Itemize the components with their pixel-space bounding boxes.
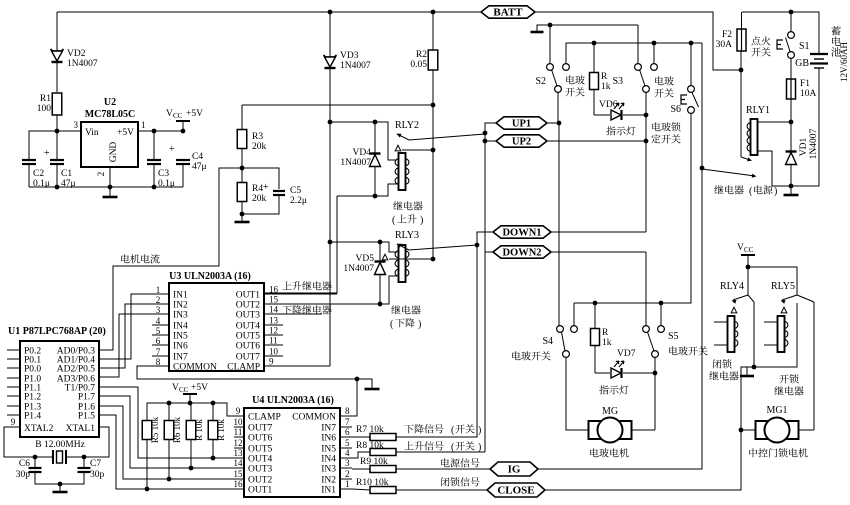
svg-text:UP1: UP1: [512, 119, 531, 130]
wire VD4 anode down: [374, 166, 376, 196]
svg-text:R8 10k: R8 10k: [356, 441, 384, 451]
svg-text:RLY1: RLY1: [746, 105, 770, 116]
node junction S1 top: [789, 10, 794, 15]
svg-text:+5V: +5V: [186, 109, 203, 119]
wire ground stub: [357, 379, 372, 388]
wire Vcc to RLY4 lever: [747, 267, 749, 295]
svg-text:R3: R3: [252, 132, 263, 142]
svg-text:UP2: UP2: [512, 137, 531, 148]
svg-text:3: 3: [156, 305, 161, 315]
svg-text:9: 9: [269, 357, 274, 367]
wire IG to RLY1 contact feed: [538, 43, 702, 469]
node junction R lower top: [593, 301, 598, 306]
svg-text:VD2: VD2: [67, 49, 86, 59]
node junction S6 top: [689, 41, 694, 46]
label 继电器 (上升) under RLY2: [393, 201, 422, 210]
svg-text:+: +: [263, 182, 269, 193]
node junction Vcc lock relays: [746, 265, 751, 270]
svg-text:RLY2: RLY2: [395, 120, 419, 131]
wire RLY2 stationary contact to R2 line: [402, 149, 433, 151]
pin 8 stub of U4 right: [340, 415, 352, 417]
resistor R10 10k: [370, 487, 396, 494]
resistor R7 10k: [370, 434, 396, 441]
svg-text:1k: 1k: [602, 338, 612, 348]
resistor R 1k lower: [591, 329, 600, 346]
wire ground stub lock: [746, 367, 748, 375]
wire R2 bottom to rail: [432, 70, 434, 105]
node junction ground rail at U4 COMMON: [355, 377, 360, 382]
wire ground rail under U2: [29, 186, 183, 188]
crystal B: [52, 450, 54, 464]
svg-text:0.05: 0.05: [410, 60, 427, 70]
wire U2 GND pin 2 down: [109, 167, 111, 196]
svg-text:CLAMP: CLAMP: [227, 363, 260, 373]
svg-text:47μ: 47μ: [192, 162, 207, 172]
svg-text:2.2μ: 2.2μ: [290, 196, 307, 206]
svg-text:OUT7: OUT7: [248, 424, 273, 434]
wire MG right: [632, 429, 655, 431]
wire S3 left contact drop: [637, 25, 639, 64]
diode VD3: [324, 55, 337, 57]
node junction R top b: [211, 401, 216, 406]
svg-text:R 10k: R 10k: [194, 419, 204, 441]
svg-text:5: 5: [345, 438, 350, 448]
wire P1.6 to U4 pin15 line: [99, 406, 244, 479]
svg-text:AD2/P0.5: AD2/P0.5: [57, 365, 96, 375]
pin 11 stub of U4 left: [234, 436, 244, 438]
pin 2 stub of U3: [152, 303, 169, 305]
svg-text:CLOSE: CLOSE: [497, 485, 534, 497]
ic U4 ULN2003A box: [244, 408, 340, 497]
motor MG1: [756, 421, 768, 439]
pin stub left P0.0: [7, 367, 20, 369]
wire VD3 branch: [329, 12, 331, 57]
wire RLY2 lever to UP net vertical: [484, 135, 486, 452]
svg-text:R: R: [601, 72, 608, 82]
tag DOWN2: [493, 246, 551, 258]
wire R1 to Vin node: [56, 115, 58, 160]
svg-text:2: 2: [345, 469, 350, 479]
svg-text:IN4: IN4: [321, 455, 336, 465]
svg-text:10: 10: [269, 347, 279, 357]
svg-text:COMMON: COMMON: [173, 363, 217, 373]
svg-text:IN1: IN1: [321, 486, 336, 496]
node junction UP2 tap: [483, 139, 488, 144]
capacitor C1 electrolytic: [50, 159, 64, 161]
svg-text:IN2: IN2: [173, 301, 188, 311]
svg-text:RLY5: RLY5: [771, 281, 795, 292]
wire U4 IN4 jog to R8 line: [352, 452, 370, 458]
resistor R4: [237, 183, 247, 202]
relay coil RLY1: [751, 119, 758, 155]
node junction stationary-R2: [431, 148, 436, 153]
led VD6 indicator: [594, 114, 610, 116]
resistor R1: [52, 93, 62, 115]
svg-text:S1: S1: [799, 41, 810, 52]
led VD7 indicator: [595, 372, 610, 374]
svg-text:S4: S4: [542, 336, 553, 347]
node junction VD5 cathode: [378, 240, 383, 245]
wire CLOSE to MG1 left: [545, 430, 741, 490]
pin 6 stub of U3: [152, 344, 169, 346]
wire grounded rail for S2 S3: [537, 25, 638, 31]
label 电玻开关 at S2: [566, 75, 585, 84]
pin stub left P1.3: [7, 405, 20, 407]
relay RLY1 contact lever: [702, 169, 755, 176]
wire motor current sense to MCU AD0/P0.3: [99, 168, 242, 350]
svg-text:R2: R2: [416, 50, 427, 60]
svg-text:C6: C6: [19, 459, 30, 469]
relay RLY4 link: [748, 295, 754, 302]
wire S4 right contact drop: [573, 303, 575, 326]
tag DOWN1: [493, 226, 551, 238]
op-amp U2 MC78L05C regulator box: [81, 122, 138, 167]
svg-text:4: 4: [156, 316, 161, 326]
label 电玻电机: [590, 448, 628, 457]
pin 12 stub of U3 right: [264, 334, 283, 336]
node junction R top a: [188, 401, 193, 406]
svg-text:OUT5: OUT5: [248, 445, 273, 455]
label 闭锁继电器: [713, 359, 732, 368]
diode VD2: [51, 49, 64, 51]
svg-text:MC78L05C: MC78L05C: [85, 109, 136, 120]
svg-text:6: 6: [156, 336, 161, 346]
svg-text:GB: GB: [795, 58, 809, 69]
wire RLY4 coil taps: [714, 321, 727, 323]
node junction R6 top: [167, 401, 172, 406]
node junction VD3 top: [328, 10, 333, 15]
svg-text:+5V: +5V: [117, 128, 134, 138]
svg-text:C1: C1: [61, 169, 72, 179]
svg-text:XTAL1: XTAL1: [66, 424, 96, 434]
svg-text:15: 15: [234, 469, 244, 479]
wire C6 stubs: [34, 457, 36, 468]
svg-text:VD1: VD1: [799, 138, 809, 157]
node junction VD5 anode: [378, 302, 383, 307]
node junction motor-current divider: [240, 166, 245, 171]
wire RLY5 coil taps: [764, 321, 777, 323]
svg-text:1: 1: [345, 479, 350, 489]
diode VD4 flyback: [374, 122, 376, 154]
label 指示灯 VD7: [599, 385, 628, 394]
node junction crystal ground: [58, 482, 63, 487]
svg-text:OUT5: OUT5: [236, 332, 261, 342]
wire C2 bottom: [28, 164, 30, 187]
svg-text:B 12.00MHz: B 12.00MHz: [35, 440, 85, 450]
wire F1 to RLY1 coil top: [790, 99, 792, 122]
relay RLY3 contact lever: [397, 244, 477, 250]
svg-text:1N4007: 1N4007: [343, 264, 374, 274]
wire T1/P0.7 to U4 pin13 line: [99, 387, 244, 458]
svg-text:R5 10k: R5 10k: [150, 416, 160, 443]
wire R10 to CLOSE tag: [396, 489, 487, 491]
relay coil RLY3: [399, 245, 406, 282]
node junction C3 bottom: [152, 185, 157, 190]
pin 11 stub of U3 right: [264, 344, 283, 346]
ic U3 ULN2003A box: [169, 283, 264, 371]
wire RLY4 output to RLY5 coil side: [754, 303, 797, 367]
svg-text:S2: S2: [535, 76, 546, 87]
svg-text:F1: F1: [800, 79, 810, 89]
wire DOWN2 to S5 left contact: [645, 252, 647, 326]
svg-text:IN7: IN7: [321, 424, 336, 434]
svg-text:): ): [418, 319, 421, 330]
ground symbol near U4: [365, 388, 380, 391]
svg-text:3: 3: [74, 120, 79, 130]
relay coil RLY4: [728, 316, 735, 352]
wire R4 bottom: [241, 201, 243, 214]
resistor R 1k top switch area: [590, 73, 599, 90]
pin stub left P1.1: [7, 386, 20, 388]
wire DOWN1 jog from R7 sense vertical: [477, 232, 493, 245]
tag IG: [490, 462, 538, 476]
pin 2 stub of U4 right: [340, 478, 352, 480]
capacitor C4 electrolytic: [176, 159, 190, 161]
wire C5 bottom to ground: [242, 195, 279, 214]
wire XTAL2 to crystal: [4, 427, 35, 457]
svg-text:S5: S5: [668, 331, 679, 342]
pin 5 stub of U3: [152, 334, 169, 336]
wire +5V rail of resistor bank: [147, 403, 244, 421]
wire F2 bottom to RLY1 armature: [740, 51, 742, 157]
wire R9 to IG tag: [396, 468, 490, 470]
ground symbol under R4: [235, 221, 250, 224]
label 电玻开关 at S3: [655, 76, 674, 85]
svg-text:): ): [774, 186, 777, 197]
pin 10 stub of U3 right: [264, 355, 283, 357]
pin 9 stub XTAL2: [7, 426, 20, 428]
fuse F2 30A: [737, 29, 746, 51]
wire RLY3 top feed to coil: [330, 242, 397, 252]
wire U3 IN1 from AD1/P0.4: [99, 294, 152, 359]
label 指示灯 VD6: [606, 126, 635, 135]
svg-text:U4 ULN2003A (16): U4 ULN2003A (16): [252, 395, 334, 406]
node junction VD3 bottom feed: [328, 120, 333, 125]
svg-text:MG: MG: [602, 406, 618, 417]
svg-text:C7: C7: [90, 459, 101, 469]
motor MG: [589, 421, 601, 439]
capacitor C3: [147, 159, 161, 161]
wire Vcc to RLY5 lever: [748, 267, 797, 295]
wire DOWN1 right to S3 pole line: [551, 231, 646, 233]
fuse F1 10A: [787, 79, 796, 99]
label 下降信号 (开关): [404, 424, 443, 433]
pin 3 stub of U3: [152, 313, 169, 315]
svg-text:R1: R1: [40, 94, 51, 104]
svg-text:S6: S6: [670, 104, 681, 115]
svg-text:14: 14: [269, 305, 279, 315]
wire C3 top: [153, 131, 155, 160]
label net 电机电流: [121, 254, 159, 263]
svg-text:30p: 30p: [90, 470, 105, 480]
svg-text:IN6: IN6: [321, 434, 336, 444]
svg-text:VD7: VD7: [617, 349, 636, 359]
wire BATT rail top-left: [57, 11, 481, 13]
svg-text:1N4007: 1N4007: [67, 59, 98, 69]
node junction VD4 anode: [373, 194, 378, 199]
wire S5 pole down to MG right: [654, 357, 656, 373]
svg-text:OUT7: OUT7: [236, 353, 261, 363]
wire S3 right contact up: [653, 43, 655, 64]
svg-text:+5V: +5V: [191, 383, 208, 393]
svg-text:P1.7: P1.7: [78, 393, 95, 403]
wire R3 to R4: [241, 148, 243, 183]
svg-text:OUT6: OUT6: [236, 342, 261, 352]
svg-text:VD4: VD4: [353, 148, 372, 158]
wire jog to UP2 tag: [485, 140, 496, 142]
wire crystal left: [35, 456, 53, 458]
wire S5 right contact drop: [660, 303, 662, 326]
svg-text:P1.5: P1.5: [78, 412, 95, 422]
pin 3 stub of U4 right: [340, 467, 352, 469]
wire BATT rail right of tag to F2 bottom jog: [535, 12, 741, 70]
wire battery bottom down to ground node: [791, 68, 819, 186]
node junction MG1 left: [739, 428, 744, 433]
node junction S5 right top: [659, 301, 664, 306]
svg-text:C4: C4: [192, 152, 203, 162]
wire S1 top: [790, 12, 792, 32]
node junction C6 top: [33, 455, 38, 460]
svg-text:6: 6: [345, 427, 350, 437]
switch S6 lock switch: [688, 86, 695, 93]
node junction R4 bottom: [240, 212, 245, 217]
node junction S2 left top: [548, 23, 553, 28]
svg-text:11: 11: [269, 336, 278, 346]
svg-text:3: 3: [345, 458, 350, 468]
svg-text:OUT6: OUT6: [248, 434, 273, 444]
label 蓄电池 rotated: [831, 26, 841, 57]
wire RLY3 stationary to R2 line: [389, 258, 433, 260]
tag CLOSE: [487, 483, 545, 497]
svg-text:R6 10k: R6 10k: [172, 416, 182, 443]
label 闭锁信号: [441, 477, 480, 486]
svg-text:OUT1: OUT1: [248, 486, 273, 496]
wire R a bottom to pin14 line: [190, 439, 192, 468]
svg-text:R7 10k: R7 10k: [356, 425, 384, 435]
wire RLY2 coil drive down to U3 OUT1: [264, 196, 337, 293]
wire U3 IN2 from AD2/P0.5: [99, 304, 152, 368]
svg-text:4: 4: [345, 448, 350, 458]
svg-text:1: 1: [141, 120, 146, 130]
tag BATT: [481, 6, 535, 18]
svg-text:IN3: IN3: [321, 465, 336, 475]
node junction C4 top / +5V feed: [181, 129, 186, 134]
node junction Vin wire: [55, 129, 60, 134]
svg-text:): ): [478, 425, 481, 436]
tag UP2: [496, 135, 547, 147]
node junction C7 top: [82, 455, 87, 460]
pin 8 stub of U3: [152, 365, 169, 367]
label 电玻开关 at S4: [512, 351, 550, 360]
svg-text:OUT3: OUT3: [236, 311, 261, 321]
wire S6 drop: [690, 43, 692, 86]
wire S2 pole to UP1: [557, 92, 559, 123]
node junction LED S3 pole: [644, 113, 649, 118]
wire P1.7 to U4 pin14 line: [99, 396, 244, 468]
node junction RLY3 stationary: [431, 257, 436, 262]
svg-text:C2: C2: [33, 169, 44, 179]
wire RLY2 coil bottom to VD4 anode line: [337, 184, 397, 196]
wire rail corner down to R3: [241, 105, 243, 130]
svg-text:5: 5: [156, 326, 161, 336]
svg-text:13: 13: [269, 316, 279, 326]
svg-text:VD3: VD3: [340, 51, 359, 61]
wire VD1 cathode: [790, 122, 792, 152]
pin 4 stub of U4 right: [340, 457, 352, 459]
svg-text:CC: CC: [744, 246, 754, 254]
label 上升继电器 on pin16: [282, 281, 331, 290]
label 继电器 (下降) under RLY3: [391, 305, 420, 314]
capacitor C6: [29, 467, 42, 469]
svg-text:P0.0: P0.0: [24, 365, 41, 375]
svg-text:15: 15: [269, 295, 279, 305]
relay RLY5 link: [797, 295, 814, 302]
capacitor C5 electrolytic: [273, 190, 285, 192]
svg-text:R: R: [602, 328, 609, 338]
ic U1 P87LPC768AP box: [20, 341, 99, 437]
wire MG1 right stub: [799, 429, 814, 431]
node junction R b bottom: [211, 456, 216, 461]
node junction R2 top: [431, 10, 436, 15]
relay coil RLY5: [778, 316, 785, 352]
wire S2 left contact drop: [549, 25, 551, 64]
svg-text:12: 12: [269, 326, 278, 336]
svg-text:9: 9: [11, 417, 16, 427]
svg-text:10A: 10A: [800, 89, 817, 99]
wire R b bottom to pin13 line: [212, 439, 214, 458]
wire C2 to Vin pin 3 of U2: [29, 131, 81, 160]
pin stub left P1.4: [7, 414, 20, 416]
svg-text:U3 ULN2003A (16): U3 ULN2003A (16): [169, 271, 251, 282]
node junction C1 bottom: [55, 185, 60, 190]
wire LED to S3 pole line: [623, 114, 646, 116]
wire VD5 anode down: [379, 274, 381, 304]
svg-text:9: 9: [236, 406, 241, 416]
node junction R6 bottom: [167, 477, 172, 482]
diode VD5 flyback: [379, 242, 381, 262]
svg-text:OUT2: OUT2: [248, 476, 273, 486]
pin 7 stub of U3: [152, 355, 169, 357]
label 继电器 (电源): [714, 185, 743, 194]
wire VD7 to S5 pole line: [623, 372, 655, 374]
svg-text:V: V: [172, 383, 179, 393]
svg-text:F2: F2: [722, 30, 732, 40]
svg-text:DOWN2: DOWN2: [502, 248, 541, 259]
label 中控门锁电机: [749, 448, 808, 457]
ground symbol RLY1: [784, 194, 799, 197]
resistor R2: [428, 50, 438, 70]
svg-text:OUT1: OUT1: [236, 291, 261, 301]
svg-text:30p: 30p: [16, 470, 31, 480]
label 下降继电器 on pin14: [282, 305, 331, 314]
wire R lower to VD7: [594, 346, 596, 373]
svg-text:U2: U2: [104, 97, 116, 108]
node junction RLY4 output: [752, 365, 757, 370]
wire C3 bottom: [153, 164, 155, 187]
wire RLY4 output down: [753, 302, 755, 367]
svg-text:IN5: IN5: [173, 332, 188, 342]
svg-text:CLAMP: CLAMP: [248, 413, 281, 423]
ground symbol top switch rail: [531, 31, 544, 34]
node junction lever-UP1 jog: [483, 131, 488, 136]
svg-text:2: 2: [156, 295, 161, 305]
pin 1 stub of U4 right: [340, 488, 352, 490]
pin 7 stub of U4 right: [340, 426, 352, 428]
node junction VD7 S5 pole: [653, 371, 658, 376]
svg-text:S3: S3: [612, 76, 623, 87]
resistor R 10k b: [208, 421, 218, 440]
svg-text:OUT3: OUT3: [248, 465, 273, 475]
